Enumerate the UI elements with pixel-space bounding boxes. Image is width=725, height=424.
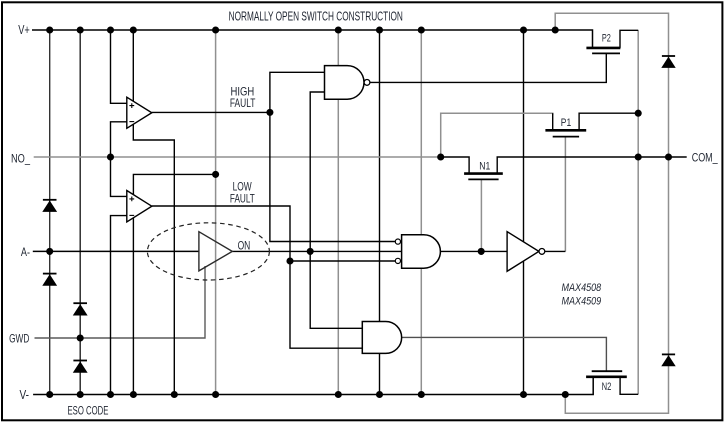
wire: N1 drain to COM_ line bbox=[497, 157, 687, 174]
junction dot LOW FAULT corner bbox=[286, 257, 293, 264]
wire: inverter U6 output bbox=[545, 250, 566, 252]
wire: P2/N2 drain bus x=638.2 bbox=[637, 30, 639, 394]
transistor N2 channel bar bbox=[586, 375, 627, 378]
diode D4 (V- to GWD) bbox=[73, 361, 87, 373]
wire: A- rail bbox=[33, 250, 199, 252]
wire: vertical rail x=379.5 (V+ to V-) bbox=[379, 30, 381, 395]
transistor N1 channel bar bbox=[464, 172, 503, 175]
junction dots V- rail bbox=[46, 391, 569, 398]
wire: comparator U1 supply drop from V+ through body to V- bbox=[133, 30, 174, 395]
wire: HIGH FAULT node to NAND U3 top input and NAND U5 top input bbox=[270, 72, 395, 241]
wire: comparator U2 - input down to V- bbox=[111, 216, 127, 395]
junction dot GWD ESD column bbox=[77, 334, 84, 341]
U1 + input symbol bbox=[129, 103, 134, 108]
wire: P1 source lead bbox=[552, 113, 554, 130]
NAND U5 top input bubble bbox=[395, 239, 400, 244]
comparator U1 (HIGH FAULT) bbox=[127, 97, 152, 128]
junction dot ON line to NAND U3 bbox=[307, 248, 314, 255]
diode D5 (COM_ to V+) bbox=[662, 56, 675, 67]
svg-text:A-: A- bbox=[21, 245, 30, 259]
svg-text:MAX4509: MAX4509 bbox=[562, 295, 602, 307]
svg-text:FAULT: FAULT bbox=[230, 191, 255, 205]
wire: P1 source route to NO_ node bbox=[441, 113, 553, 157]
wire: N2 drain lead to drain bus bbox=[620, 377, 638, 395]
wire: comparator U2 supply branch from x=215.6 node down to V- bbox=[133, 174, 215, 394]
wire: vertical rail x=421.3 (V+ to V-) bbox=[420, 30, 422, 395]
transistor P1 gate bar bbox=[553, 136, 579, 138]
wire: NAND U3 output to P2 gate bbox=[370, 53, 606, 82]
transistor P2 channel bar bbox=[586, 47, 620, 50]
wire: GWD rail and riser to ON buffer bbox=[35, 266, 206, 338]
ON buffer U4 triangle bbox=[199, 232, 232, 271]
junction dot COM_ drain bus bbox=[635, 153, 642, 160]
diode D2 (V- to A-) bbox=[43, 274, 57, 286]
svg-text:ESO CODE: ESO CODE bbox=[68, 403, 109, 417]
junction dot NO_ to N1/P1 bbox=[437, 153, 444, 160]
svg-text:NO_: NO_ bbox=[11, 151, 30, 165]
U2 - input symbol bbox=[129, 214, 134, 216]
svg-text:GWD: GWD bbox=[9, 331, 29, 345]
U2 + input symbol bbox=[129, 197, 134, 202]
NAND gate U3 body bbox=[325, 66, 365, 100]
wire: ESD chain vertical x=49.7 bbox=[49, 30, 51, 395]
svg-text:P2: P2 bbox=[602, 33, 611, 45]
NAND U5 bottom input bubble bbox=[395, 258, 400, 263]
NAND gate U5 body (3-input) bbox=[402, 235, 441, 268]
junction dot P1 drain on bus bbox=[635, 110, 642, 117]
junction dot HIGH FAULT node bbox=[266, 109, 273, 116]
comparator U2 (LOW FAULT) bbox=[127, 191, 152, 222]
wire: NO_ node to N1 source lead bbox=[441, 157, 469, 174]
wire: P2 drain lead to drain bus bbox=[620, 30, 638, 48]
svg-text:N2: N2 bbox=[602, 381, 612, 393]
svg-text:N1: N1 bbox=[479, 160, 490, 172]
wire: vertical rail x=215.6 (V+ to V-) bbox=[215, 30, 217, 395]
wire: V+ to comparator U1 + input bbox=[111, 30, 127, 103]
wire: ON line to NAND U3 bottom input bbox=[310, 92, 324, 251]
wire: V+ rail into P2 source lead bbox=[32, 30, 593, 48]
junction dots V+ rail bbox=[46, 26, 559, 33]
AND gate U7 body bbox=[362, 322, 401, 354]
wire: NAND U5 output to inverter U6 bbox=[440, 250, 507, 252]
wire: NO_ node to comparator U2 + input bbox=[111, 157, 127, 196]
wire: vertical rail x=338.3 (V+ to V-) bbox=[337, 30, 339, 395]
wire: V- rail into N2 source lead bbox=[33, 377, 593, 395]
U1 - input symbol bbox=[129, 121, 134, 123]
wire: N1 gate lead bbox=[480, 179, 482, 251]
wire: LOW FAULT comparator output to AND U7 bottom input bbox=[152, 206, 362, 348]
inverter U6 output bubble bbox=[539, 249, 545, 255]
transistor P1 channel bar bbox=[545, 129, 586, 132]
transistor N2 gate bar bbox=[592, 370, 623, 372]
inverter U6 body bbox=[507, 232, 539, 272]
wire: comparator U1 - input to NO_ node bbox=[111, 122, 127, 157]
junction dot NO_ node at comparator column bbox=[107, 153, 114, 160]
svg-text:V+: V+ bbox=[18, 23, 30, 37]
junction dot NAND U5 output / N1 gate bbox=[478, 248, 485, 255]
transistor P2 gate bar bbox=[592, 52, 620, 54]
diode D3 (GWD to V+) bbox=[73, 303, 87, 315]
diode D1 (A- to V+) bbox=[43, 200, 57, 212]
junction dot U2 supply branch bbox=[212, 171, 219, 178]
wire: AND gate output to N2 gate bbox=[402, 337, 607, 371]
svg-text:FAULT: FAULT bbox=[230, 96, 256, 110]
svg-text:V-: V- bbox=[20, 388, 30, 402]
wire: V+ top-right clamp route to COM_ diode and V- return bbox=[555, 13, 668, 413]
transistor N1 gate bar bbox=[468, 178, 498, 180]
dashed enable ellipse bbox=[147, 223, 269, 280]
junction dot A- ESD column bbox=[46, 248, 53, 255]
wire: ON buffer output to NAND U5 middle input bbox=[232, 250, 401, 252]
junction dot COM_ clamp column bbox=[665, 153, 672, 160]
svg-text:P1: P1 bbox=[561, 117, 571, 129]
wire: vertical rail x=523.5 (V+ to V-) bbox=[523, 30, 525, 395]
wire: HIGH FAULT comparator output bbox=[152, 111, 270, 113]
svg-text:MAX4508: MAX4508 bbox=[562, 282, 602, 294]
wire: P1 drain to drain bus bbox=[579, 113, 638, 130]
svg-text:NORMALLY OPEN SWITCH CONSTRUCT: NORMALLY OPEN SWITCH CONSTRUCTION bbox=[229, 9, 403, 23]
svg-text:COM_: COM_ bbox=[692, 150, 718, 164]
wire: LOW FAULT node to NAND U5 bottom input bbox=[290, 260, 395, 262]
wire: NO_ rail bbox=[34, 156, 441, 158]
diode D6 (V- to COM_) bbox=[662, 354, 675, 365]
wire: ON node branch to AND U7 top input bbox=[310, 251, 362, 328]
wire: ESD chain vertical x=80 bbox=[79, 30, 81, 395]
svg-text:ON: ON bbox=[238, 238, 251, 252]
wire: P1 gate riser from inverter output bbox=[564, 137, 566, 252]
NAND U3 output bubble bbox=[364, 80, 370, 86]
